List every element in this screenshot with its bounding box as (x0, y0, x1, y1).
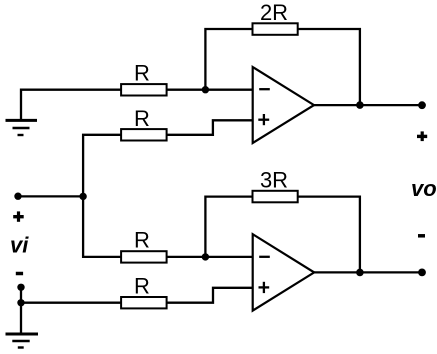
wire: branch node down to R3 left (83, 196, 122, 257)
node: U2 output junction (356, 269, 364, 277)
node: vi+ branch junction (79, 193, 86, 200)
label Rf1 value "2R" (260, 0, 288, 25)
svg-text:R: R (134, 227, 150, 252)
label: vo minus polarity (418, 234, 425, 238)
wire: vi+ to branch node (18, 195, 83, 197)
wire: vi- node to R4 left (21, 302, 122, 304)
svg-text:R: R (134, 274, 150, 299)
node: vi- branch junction (17, 299, 24, 306)
wire: junction up to 2R feedback left (205, 29, 253, 90)
svg-text:3R: 3R (260, 168, 288, 193)
resistor R4 (to non-inverting input of U2) (121, 297, 167, 308)
resistor Rf2 feedback (3R) (253, 191, 298, 203)
svg-text:2R: 2R (260, 0, 288, 25)
wire: top-left ground up to R1 left (21, 90, 122, 121)
label R2 value "R" (134, 106, 150, 131)
label: vi plus polarity (13, 211, 24, 221)
svg-text:vi: vi (10, 232, 29, 257)
resistor R1 (to inverting input of U1) (121, 84, 167, 95)
op-amp U2 (253, 234, 315, 310)
ground GND2 (bottom-left) (6, 334, 39, 348)
terminal: vi+ (14, 193, 21, 200)
terminal: vo- (418, 269, 426, 277)
label: vo (411, 176, 437, 201)
svg-text:R: R (134, 61, 150, 86)
wire: junction up to 3R feedback left (205, 197, 253, 257)
wire: vi+ node up to R2 left (83, 135, 122, 197)
label: vi (10, 232, 29, 257)
wire: 2R right down to U1 output node (298, 29, 360, 105)
op-amp U1 (253, 67, 314, 143)
label Rf2 value "3R" (260, 168, 288, 193)
node: U1 inverting input junction (202, 86, 209, 93)
terminal: vi- (17, 284, 24, 291)
svg-text:R: R (134, 106, 150, 131)
label R1 value "R" (134, 61, 150, 86)
node: U2 inverting input junction (202, 253, 209, 260)
wire: R4 right step up to U2 non-inverting input (166, 288, 253, 303)
wire: R1 right to U1 inverting input (166, 89, 253, 91)
resistor Rf1 feedback (2R) (253, 23, 298, 35)
wire: R2 right step up to U1 non-inverting input (166, 120, 253, 135)
node: U1 output junction (356, 101, 364, 109)
label R3 value "R" (134, 227, 150, 252)
wire: U2 output line (313, 271, 422, 273)
wire: R3 right to U2 inverting input (166, 256, 253, 258)
wire: U1 output line (313, 104, 422, 106)
resistor R3 (to inverting input of U2) (121, 251, 167, 262)
label: vi minus polarity (16, 272, 23, 276)
resistor R2 (to non-inverting input of U1) (121, 129, 167, 140)
terminal: vo+ (418, 101, 426, 109)
label: vo plus polarity (417, 131, 427, 141)
svg-text:vo: vo (411, 176, 437, 201)
ground GND1 (top-left) (6, 120, 38, 135)
wire: 3R right down to U2 output node (298, 197, 360, 273)
wire: vi- down to ground (20, 287, 22, 334)
label R4 value "R" (134, 274, 150, 299)
